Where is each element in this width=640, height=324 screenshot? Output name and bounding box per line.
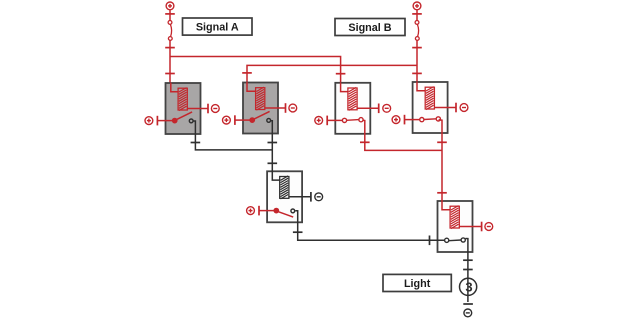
relay K5 coil - terminal: [289, 192, 323, 202]
wire relay K1 output down: [193, 121, 272, 150]
tick above relay K2: [242, 72, 252, 74]
relay K5 body: [267, 171, 302, 222]
tick below relay K1: [191, 142, 201, 144]
relay K3 switch contact: [342, 118, 363, 123]
label Light: [383, 274, 451, 291]
tick below relay K2: [268, 142, 278, 144]
lamp: [460, 278, 477, 295]
tick below relay K4: [437, 141, 447, 143]
relay K6 coil - terminal: [459, 222, 492, 232]
relay K2 coil - terminal: [265, 103, 297, 113]
relay K1 coil - terminal: [187, 104, 219, 114]
tick above relay K6: [437, 192, 447, 194]
tick below relay K6: [463, 259, 473, 261]
relay K1 switch contact: [172, 112, 193, 123]
relay K4 body: [413, 82, 448, 133]
tick below relay K5: [293, 231, 303, 233]
tick above relay K4: [412, 72, 422, 74]
relay K4 switch contact: [420, 117, 441, 122]
relay K5 coil feed wire: [272, 171, 279, 180]
relay K2 switch contact: [250, 111, 271, 122]
relay K4 coil - terminal: [434, 103, 468, 113]
relay K1 coil: [178, 88, 187, 111]
relay K2 coil feed wire: [247, 82, 256, 91]
tick above relay K1: [165, 73, 175, 75]
relay K2 switch + terminal: [223, 115, 250, 125]
wire Signal B branch to relay K2: [247, 65, 417, 82]
wire relay K6 output down to lamp: [466, 239, 468, 303]
label Signal B: [335, 19, 405, 36]
tick above relay K5: [268, 162, 278, 164]
relay K3 coil feed wire: [341, 82, 348, 91]
relay K4 coil feed wire: [417, 82, 425, 91]
relay K3 coil: [348, 87, 357, 110]
svg-text:Signal B: Signal B: [348, 22, 391, 34]
relay K3 switch + terminal: [315, 116, 342, 126]
tick above lamp: [463, 269, 473, 271]
relay K3 body: [335, 83, 370, 134]
wire Signal A vertical to relay K1: [169, 48, 171, 83]
wire relay K3 output down: [362, 120, 442, 150]
relay K6 coil feed wire: [442, 201, 450, 210]
relay K4 coil: [425, 87, 434, 110]
Signal B supply + terminal: [412, 2, 422, 14]
Signal B pushbutton switch: [412, 14, 422, 48]
tick at relay K6 switch input: [429, 236, 431, 246]
relay K2 coil: [256, 87, 265, 110]
label Signal A: [183, 18, 253, 35]
wire relay K5 output to relay K6 switch: [295, 211, 444, 241]
Signal A pushbutton switch: [165, 14, 175, 48]
relay K5 switch + terminal: [247, 206, 274, 216]
tick below relay K3: [360, 141, 370, 143]
wire Signal B vertical to relay K4: [416, 48, 418, 82]
relay K4 switch + terminal: [392, 115, 419, 125]
Signal A supply + terminal: [165, 2, 175, 14]
relay K5 coil: [280, 176, 289, 199]
lamp - terminal: [463, 304, 473, 317]
relay K6 body: [438, 201, 473, 252]
relay K1 coil feed wire: [171, 83, 178, 92]
svg-text:Signal A: Signal A: [196, 22, 239, 34]
relay K1 body: [166, 83, 201, 134]
wire relay K4 output down to relay K6: [439, 120, 442, 201]
relay K2 body: [243, 83, 278, 134]
relay K1 switch + terminal: [145, 116, 172, 126]
wire Signal A branch to relay K3: [170, 57, 341, 83]
relay K3 coil - terminal: [357, 104, 391, 114]
svg-text:Light: Light: [404, 278, 431, 290]
relay K6 coil: [450, 206, 459, 229]
relay K6 switch contact: [445, 238, 466, 243]
tick above relay K3: [336, 73, 346, 75]
relay K5 switch contact: [274, 208, 295, 217]
wire relay K2 output down to relay K5: [271, 121, 273, 172]
svg-text:3: 3: [465, 280, 472, 295]
